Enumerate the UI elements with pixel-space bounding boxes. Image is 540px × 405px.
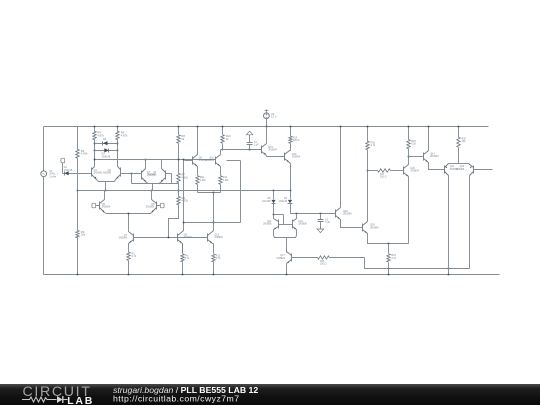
wire col-77 lower: [77, 238, 79, 275]
svg-text:C31 μF: C31 μF: [325, 218, 330, 224]
junction q21 ground: [448, 274, 450, 276]
junction q6 ground: [182, 274, 184, 276]
wire col-118 mid: [117, 140, 119, 167]
junction R4-rail: [94, 126, 96, 128]
wire divider tap: [131, 173, 179, 184]
wire q7 res tail: [128, 261, 130, 275]
resistor R10: [221, 134, 231, 143]
resistor R6: [116, 131, 128, 140]
junction q17 ground: [286, 274, 288, 276]
wire box top: [227, 160, 241, 162]
svg-text:R111.25k: R111.25k: [223, 176, 230, 182]
junction Q9-rail: [197, 126, 199, 128]
svg-text:Q182N3904: Q182N3904: [343, 210, 352, 216]
footer bar: [0, 384, 540, 405]
wire col-178 a: [178, 144, 180, 174]
wire comparator out: [78, 190, 291, 192]
junction jog-bus237: [168, 237, 170, 239]
transistor Q5: [100, 191, 129, 214]
diode D5: [262, 191, 275, 215]
resistor R7: [177, 173, 189, 183]
svg-text:R186.2k: R186.2k: [411, 140, 416, 146]
transistor Q10: [206, 150, 221, 176]
svg-text:D31N4148: D31N4148: [102, 153, 111, 159]
junction R8-rail: [178, 126, 180, 128]
svg-text:D51N4148: D51N4148: [262, 197, 271, 203]
transistor Q15: [262, 127, 285, 157]
wire threshold: [221, 149, 262, 151]
transistor Q7: [119, 232, 134, 253]
svg-text:C11 μF: C11 μF: [254, 141, 259, 147]
junction r17 node: [367, 170, 369, 172]
capacitor C1: [246, 131, 259, 150]
footer content SVG: [0, 384, 540, 405]
transistor Q16: [285, 151, 301, 200]
junction R20-rail: [458, 126, 460, 128]
junction q14-rail: [428, 126, 430, 128]
node flag TH: [92, 203, 100, 208]
wire q13 res tail: [213, 262, 215, 275]
wire q10 emitter tail: [220, 185, 222, 193]
wire box right: [240, 161, 242, 223]
junction q18-rail: [340, 126, 342, 128]
svg-text:R94.7k: R94.7k: [185, 254, 190, 260]
svg-text:R85k: R85k: [181, 134, 185, 141]
junction q20-r18: [408, 156, 410, 158]
transistor Q2: [103, 151, 132, 182]
wire bottom ground rail: [44, 274, 500, 276]
wire mirror tail: [213, 193, 215, 231]
svg-text:D11N4148: D11N4148: [64, 166, 73, 172]
wire r18 to q14: [409, 156, 424, 158]
junction q13 ground: [213, 274, 215, 276]
junction R13-rail: [290, 126, 292, 128]
svg-text:R17100 Ω: R17100 Ω: [380, 173, 387, 179]
wire col-77 mid: [77, 159, 79, 231]
junction col-222 cap: [222, 149, 224, 151]
junction V2-rail: [266, 126, 268, 128]
transistor Q14: [424, 127, 445, 170]
junction P2 tail: [151, 190, 153, 192]
resistor R2: [127, 252, 137, 261]
svg-text:D2: D2: [103, 138, 107, 141]
logo resistor-diode squiggle: [22, 396, 68, 403]
wire r15 jog: [365, 258, 470, 269]
wire mirror bus: [95, 159, 216, 161]
resistor R16: [366, 141, 376, 150]
junction 296: [296, 213, 298, 215]
node flag TR: [157, 203, 165, 208]
svg-text:R24.7k: R24.7k: [132, 252, 137, 258]
svg-text:V212 V: V212 V: [271, 112, 277, 119]
wire col-77 upper: [77, 127, 79, 150]
junction col-178 bus: [178, 159, 180, 161]
svg-text:Q232N3906: Q232N3906: [456, 165, 465, 171]
svg-text:Q122N3906: Q122N3906: [298, 220, 307, 226]
svg-text:R54.92k: R54.92k: [81, 149, 88, 156]
svg-text:http://circuitlab.com/cwyz7m7: http://circuitlab.com/cwyz7m7: [113, 394, 240, 404]
transistor Q1: [92, 151, 106, 182]
svg-text:LAB: LAB: [67, 395, 94, 405]
resistor R20: [457, 137, 467, 147]
svg-text:R2010k: R2010k: [462, 138, 467, 144]
svg-text:R194.7k: R194.7k: [391, 254, 396, 260]
junction box-bus: [183, 159, 185, 161]
svg-text:Q52N3904: Q52N3904: [102, 203, 111, 209]
capacitor C3: [318, 214, 331, 230]
transistor Q8: [129, 191, 157, 214]
svg-text:D41N4148: D41N4148: [279, 197, 288, 203]
wire mirror base: [279, 224, 293, 226]
wire col-222 stub: [222, 127, 224, 135]
junction P3 tail: [128, 213, 130, 215]
wire col-458 low: [458, 148, 460, 164]
junction col-118 d2: [117, 143, 119, 145]
diode D1: [63, 166, 92, 175]
junction jog-448: [448, 268, 450, 270]
node flag IN: [61, 158, 65, 173]
svg-text:R101k: R101k: [226, 134, 231, 141]
junction wire243-r19: [388, 243, 390, 245]
svg-text:Q72N3904: Q72N3904: [119, 234, 128, 240]
junction mirror top: [273, 214, 275, 216]
wire emitter join bar: [198, 192, 221, 194]
svg-text:Q152N3904: Q152N3904: [268, 146, 277, 152]
junction col-77 wire190: [77, 190, 79, 192]
resistor R18: [407, 140, 417, 149]
junction P2 collector left: [145, 159, 147, 161]
voltage source V1: [41, 169, 58, 179]
wire P2 tail: [152, 184, 154, 191]
wire col-178 b: [178, 183, 180, 197]
wire col-118 stub: [117, 127, 119, 132]
wire col-458 stub: [458, 127, 460, 138]
transistor Q12: [287, 214, 308, 238]
transistor Q9: [185, 127, 208, 176]
resistor R13: [289, 136, 300, 143]
wire top supply rail: [44, 126, 489, 128]
junction tail-box: [213, 222, 215, 224]
wire r19 top: [388, 244, 390, 254]
transistor Q3: [132, 160, 156, 184]
resistor R9: [177, 196, 189, 205]
junction r19 ground: [388, 274, 390, 276]
wire mirror pair tail: [286, 238, 288, 253]
svg-text:Q202N3904: Q202N3904: [410, 167, 419, 173]
svg-text:R44.87k: R44.87k: [97, 131, 104, 138]
resistor R10e: [196, 176, 207, 185]
svg-text:Q172N3904: Q172N3904: [276, 254, 285, 260]
svg-text:Q102N3904: Q102N3904: [206, 157, 215, 163]
junction q16-wire190: [290, 190, 292, 192]
junction wire190-d5: [273, 190, 275, 192]
transistor Q20: [404, 157, 420, 244]
junction jog-r19: [388, 268, 390, 270]
transistor Q18: [336, 127, 363, 228]
wire col-94 stub: [94, 127, 96, 132]
wire col-290 stub: [290, 127, 292, 137]
junction R18-rail: [408, 126, 410, 128]
diode D3: [95, 148, 118, 158]
junction col-94 d2: [94, 143, 96, 145]
ground: [317, 229, 324, 233]
wire base bus 213: [291, 213, 336, 215]
transistor Q4: [148, 160, 172, 184]
resistor R19: [387, 254, 397, 262]
junction col-118 d3: [117, 150, 119, 152]
svg-text:R9e1.25k: R9e1.25k: [200, 176, 207, 182]
wire r19 bot: [388, 263, 390, 275]
junction R6-rail: [117, 126, 119, 128]
wire box left: [183, 160, 185, 231]
junction col-178 wire190: [178, 190, 180, 192]
transistor Q21: [445, 164, 459, 275]
transistor Q19: [363, 171, 409, 244]
svg-text:R64.87k: R64.87k: [121, 131, 128, 138]
svg-text:Q132N3904: Q132N3904: [214, 234, 223, 240]
wire mirror top: [274, 214, 284, 216]
svg-text:R15100 Ω: R15100 Ω: [320, 260, 327, 266]
junction q7 ground: [128, 274, 130, 276]
diode D4: [279, 197, 293, 213]
svg-text:V1SIN(...)1 kHz: V1SIN(...)1 kHz: [49, 169, 58, 179]
wire q9 emitter tail: [197, 185, 199, 193]
diode D2: [95, 138, 118, 145]
voltage source V2: [264, 110, 277, 127]
junction emitter bar: [213, 192, 215, 194]
transistor Q17: [276, 252, 291, 275]
svg-text:Q162N3904: Q162N3904: [292, 153, 301, 159]
svg-text:Q62N3904: Q62N3904: [184, 234, 193, 240]
resistor R17: [368, 169, 404, 179]
wire P1 tail: [105, 182, 107, 191]
svg-text:R310k: R310k: [81, 230, 86, 237]
transistor Q13: [208, 231, 224, 254]
wire q6 res tail: [182, 262, 184, 275]
wire col-178 jog: [169, 205, 179, 238]
junction col-94 d3: [94, 150, 96, 152]
svg-text:Q12N3906: Q12N3906: [94, 169, 103, 175]
resistor R9b: [181, 254, 190, 262]
resistor R11e: [219, 176, 230, 185]
wire col-367 low: [367, 150, 369, 171]
wire col-290 a: [290, 144, 292, 151]
svg-text:R164.7k: R164.7k: [371, 142, 376, 148]
transistor Q23: [456, 164, 493, 269]
resistor R12: [212, 254, 221, 262]
wire col-367 stub: [367, 127, 369, 142]
junction cap C3: [320, 213, 322, 215]
resistor R5: [76, 149, 88, 159]
svg-text:R13100 Ω: R13100 Ω: [293, 137, 300, 143]
svg-text:R94.92k: R94.92k: [181, 196, 188, 203]
resistor R8: [177, 134, 186, 143]
junction col-77 ground: [77, 274, 79, 276]
wire box bottom: [184, 222, 241, 224]
wire left rail upper: [43, 127, 45, 171]
transistor Q11: [263, 215, 286, 238]
resistor R3: [76, 230, 86, 238]
junction R10-rail: [222, 126, 224, 128]
svg-text:Q142N3904: Q142N3904: [430, 153, 439, 159]
junction box corner: [183, 222, 185, 224]
junction P1 tail: [105, 190, 107, 192]
wire col-408 low: [408, 149, 410, 157]
wire P3 tail: [128, 214, 130, 232]
svg-text:Q82N3904: Q82N3904: [146, 203, 155, 209]
junction bus-q1col: [94, 159, 96, 161]
transistor Q6: [178, 231, 193, 254]
svg-text:R124.7k: R124.7k: [216, 254, 221, 260]
svg-text:Q112N3906: Q112N3906: [263, 220, 272, 226]
wire col-94 mid: [94, 140, 96, 167]
svg-text:Q22N3906: Q22N3906: [103, 169, 112, 175]
resistor R4: [93, 131, 105, 140]
wire mirror tie: [283, 215, 285, 225]
wire col-408 stub: [408, 127, 410, 140]
wire col-178 stub: [178, 127, 180, 135]
wire col-222 low: [222, 144, 224, 150]
resistor R15: [292, 256, 365, 266]
wire base bus 237: [134, 237, 208, 239]
svg-text:Q192N3904: Q192N3904: [370, 224, 379, 230]
svg-text:R74.92k: R74.92k: [181, 173, 188, 180]
wire left rail lower: [43, 177, 45, 275]
junction R16-rail: [367, 126, 369, 128]
